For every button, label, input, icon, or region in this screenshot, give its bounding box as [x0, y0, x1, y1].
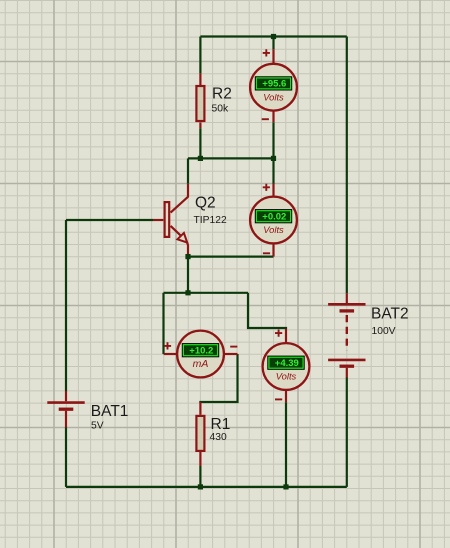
- svg-text:Volts: Volts: [263, 91, 284, 102]
- svg-text:+95.6: +95.6: [262, 79, 286, 90]
- svg-text:R1: R1: [211, 416, 231, 433]
- svg-text:Q2: Q2: [195, 194, 216, 211]
- svg-text:TIP122: TIP122: [194, 215, 227, 226]
- svg-text:mA: mA: [193, 358, 209, 370]
- svg-text:+0.02: +0.02: [262, 212, 286, 223]
- svg-text:50k: 50k: [212, 104, 229, 115]
- svg-text:430: 430: [210, 432, 227, 443]
- svg-text:+4.39: +4.39: [275, 358, 299, 369]
- svg-text:BAT2: BAT2: [371, 306, 409, 323]
- svg-text:BAT1: BAT1: [91, 403, 129, 420]
- svg-text:5V: 5V: [91, 420, 104, 431]
- svg-text:100V: 100V: [372, 326, 396, 337]
- svg-text:R2: R2: [212, 86, 232, 103]
- svg-text:Volts: Volts: [263, 224, 284, 235]
- svg-text:+10.2: +10.2: [189, 346, 213, 357]
- svg-text:Volts: Volts: [276, 371, 297, 382]
